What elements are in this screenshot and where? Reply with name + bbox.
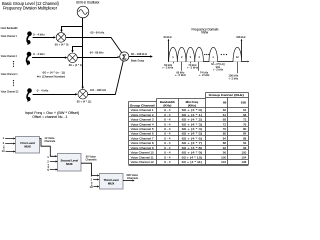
mixer M12	[78, 89, 88, 99]
table row 4: Voice Channel 4	[131, 122, 247, 126]
svg-text:80: 80	[243, 127, 247, 131]
svg-text:60 + (4 * 10): 60 + (4 * 10)	[182, 155, 203, 159]
svg-text:Voice Channel 12: Voice Channel 12	[1, 90, 19, 94]
table row 2: Voice Channel 2	[131, 113, 247, 117]
table row 12: Voice Channel 12	[131, 160, 247, 164]
svg-text:76: 76	[223, 127, 227, 131]
svg-text:0 - 4: 0 - 4	[164, 155, 171, 159]
block Third Level MUX	[100, 174, 124, 190]
input 10 to third level mux	[90, 185, 100, 189]
svg-text:60 - 108 kHz: 60 - 108 kHz	[131, 52, 148, 56]
svg-text:(KHz): (KHz)	[188, 103, 196, 107]
svg-text:Voice Channel 3: Voice Channel 3	[131, 118, 154, 122]
table row 11: Voice Channel 11	[131, 155, 247, 159]
channel hump n	[209, 47, 218, 61]
svg-text:72: 72	[243, 118, 247, 122]
svg-text:0 - 4: 0 - 4	[164, 132, 171, 136]
ellipsis dots first level inputs	[3, 146, 4, 150]
svg-text:0 - 4 kHz: 0 - 4 kHz	[33, 52, 45, 56]
svg-text:60 - 64 kHz: 60 - 64 kHz	[90, 31, 104, 35]
svg-text:12: 12	[2, 149, 6, 153]
svg-text:84: 84	[223, 136, 227, 140]
input 1 to first level mux	[3, 136, 16, 140]
svg-text:Voice Channel n: Voice Channel n	[1, 72, 18, 76]
channel hump 1	[169, 47, 178, 61]
svg-text:68: 68	[243, 113, 247, 117]
leader hump 12	[237, 62, 239, 74]
wire oscillator vertical bus	[82, 18, 84, 87]
ellipsis dots third level inputs	[91, 182, 92, 186]
svg-text:60 + (4 * 4): 60 + (4 * 4)	[182, 127, 203, 131]
svg-text:108 kHz: 108 kHz	[236, 35, 246, 39]
svg-text:96: 96	[243, 146, 247, 150]
svg-text:68: 68	[223, 118, 227, 122]
svg-text:(KHz): (KHz)	[163, 103, 171, 107]
svg-text:10: 10	[90, 185, 94, 189]
mixer M2	[68, 53, 78, 63]
ellipsis dots between hump n and hump 12	[221, 54, 227, 55]
svg-text:Channels: Channels	[127, 176, 139, 180]
svg-text:0 - 4: 0 - 4	[164, 122, 171, 126]
channel hump 2	[177, 47, 186, 61]
input 5 to second level mux	[47, 168, 58, 172]
axis vertical 60 kHz	[168, 39, 170, 62]
ellipsis dots channels 3..n-1	[13, 61, 14, 67]
block Second Level MUX	[58, 154, 82, 172]
svg-text:0 - 4: 0 - 4	[164, 151, 171, 155]
svg-text:76: 76	[243, 122, 247, 126]
svg-text:Frequency Division Multiplexer: Frequency Division Multiplexer	[3, 6, 58, 11]
wire first level mux to second level mux	[40, 139, 58, 158]
svg-text:64 - 68 kHz: 64 - 68 kHz	[90, 50, 104, 54]
svg-text:60: 60	[223, 108, 227, 112]
wire summer output arrow	[129, 55, 153, 57]
svg-text:60 + (4 * 6): 60 + (4 * 6)	[182, 136, 203, 140]
svg-text:+- 2 kHz: +- 2 kHz	[199, 73, 211, 77]
svg-text:Basic Group: Basic Group	[131, 58, 145, 62]
block First Level MUX	[16, 137, 40, 154]
wire second level mux to third level mux	[81, 163, 99, 176]
table row 5: Voice Channel 5	[131, 127, 247, 131]
svg-text:Channels: Channels	[44, 139, 56, 143]
svg-text:+- 2 kHz: +- 2 kHz	[228, 76, 239, 80]
svg-text:100: 100	[221, 155, 226, 159]
svg-text:Group Carrier (KHz): Group Carrier (KHz)	[209, 93, 244, 97]
svg-text:96: 96	[223, 151, 227, 155]
mixer M1	[56, 33, 66, 43]
svg-text:108: 108	[241, 160, 246, 164]
svg-text:0 - 4: 0 - 4	[164, 141, 171, 145]
wire third level mux output	[123, 180, 135, 182]
leader hump 2	[181, 62, 183, 71]
svg-text:60 + (4 * 9): 60 + (4 * 9)	[182, 151, 203, 155]
handset icon channel 1	[26, 31, 31, 44]
svg-text:0 - 4: 0 - 4	[164, 160, 171, 164]
svg-text:Voice Channel 1: Voice Channel 1	[131, 108, 154, 112]
svg-text:60 + (4 * 0): 60 + (4 * 0)	[55, 42, 69, 46]
table row 6: Voice Channel 6	[131, 132, 247, 136]
handset icon channel 12	[26, 88, 31, 101]
table row 7: Voice Channel 7	[131, 136, 247, 140]
input 12 to first level mux	[2, 149, 16, 153]
svg-text:60 KHz Oscillator: 60 KHz Oscillator	[76, 1, 100, 5]
leader hump 3	[190, 62, 192, 64]
svg-text:72: 72	[223, 122, 227, 126]
svg-text:0 - 4: 0 - 4	[164, 118, 171, 122]
svg-text:MUX: MUX	[24, 145, 30, 149]
svg-text:+- 2 kHz: +- 2 kHz	[162, 66, 174, 70]
wire branch to mixer M1	[60, 27, 82, 33]
svg-text:+- 2 kHz: +- 2 kHz	[213, 67, 224, 71]
ellipsis dots between hump 4 and hump n	[204, 54, 209, 55]
oscillator OSC1	[77, 6, 89, 18]
axis horizontal frequency	[169, 61, 250, 63]
arrow into mixer M12	[82, 87, 84, 90]
table row 1: Voice Channel 1	[131, 108, 247, 112]
svg-text:0 - 4 kHz: 0 - 4 kHz	[37, 89, 49, 93]
svg-text:60 + (4 * 3): 60 + (4 * 3)	[182, 122, 203, 126]
svg-text:104: 104	[221, 160, 226, 164]
svg-text:Σ: Σ	[122, 52, 127, 61]
wire mixer M2 output to summer	[78, 56, 120, 58]
svg-text:0 - 4: 0 - 4	[164, 108, 171, 112]
svg-text:104: 104	[241, 155, 246, 159]
svg-text:88: 88	[223, 141, 227, 145]
svg-text:60 + (4 * 8): 60 + (4 * 8)	[182, 146, 203, 150]
channel hump 12	[233, 47, 242, 61]
svg-text:0 - 4: 0 - 4	[164, 113, 171, 117]
ellipsis dots second level inputs	[48, 164, 49, 168]
svg-text:60 + (4 * 11): 60 + (4 * 11)	[77, 100, 92, 104]
svg-text:Voice Channel 7: Voice Channel 7	[131, 136, 154, 140]
svg-text:Voice Channel 10: Voice Channel 10	[131, 151, 154, 155]
channel hump 3	[186, 47, 195, 61]
svg-text:88: 88	[243, 136, 247, 140]
leader hump n	[213, 62, 215, 63]
svg-text:0 - 4: 0 - 4	[164, 136, 171, 140]
svg-text:92: 92	[243, 141, 247, 145]
svg-text:60: 60	[223, 101, 227, 105]
svg-text:Voice Channel 8: Voice Channel 8	[131, 141, 154, 145]
svg-text:60 + (4 * 2): 60 + (4 * 2)	[182, 118, 203, 122]
svg-text:Group Channel: Group Channel	[130, 103, 155, 107]
svg-text:Voice Channel 5: Voice Channel 5	[131, 127, 154, 131]
svg-text:60 + (4 * 11): 60 + (4 * 11)	[182, 160, 203, 164]
svg-text:92: 92	[223, 146, 227, 150]
wire channel 12 to mixer M12	[33, 93, 78, 95]
axis vertical 108 kHz	[241, 39, 243, 62]
svg-text:Voice Channel 4: Voice Channel 4	[131, 122, 154, 126]
svg-text:64: 64	[223, 113, 227, 117]
input 2 to third level mux	[91, 177, 100, 181]
svg-text:Voice Channel 2: Voice Channel 2	[131, 113, 154, 117]
svg-text:Voice Channel 9: Voice Channel 9	[131, 146, 154, 150]
svg-text:Voice Channel 12: Voice Channel 12	[131, 160, 154, 164]
table row 8: Voice Channel 8	[131, 141, 247, 145]
leader hump 4	[198, 62, 200, 71]
svg-text:60 + (4 * 1): 60 + (4 * 1)	[182, 113, 203, 117]
summer U1 (sigma adder)	[120, 52, 129, 62]
table row 9: Voice Channel 9	[131, 146, 247, 150]
leader hump 1	[173, 62, 175, 64]
svg-text:Voice Channel 2: Voice Channel 2	[1, 54, 17, 58]
svg-text:+- 2 kHz: +- 2 kHz	[187, 66, 199, 70]
table row 10: Voice Channel 10	[131, 151, 247, 155]
svg-text:84: 84	[243, 132, 247, 136]
svg-text:# n (Channel Number): # n (Channel Number)	[37, 74, 65, 78]
table row 3: Voice Channel 3	[131, 118, 247, 122]
input 2 to second level mux	[47, 160, 58, 164]
ellipsis dots channels n..11	[13, 80, 14, 86]
svg-text:104 - 108 kHz: 104 - 108 kHz	[90, 88, 107, 92]
svg-text:Channels: Channels	[86, 158, 98, 162]
svg-text:100: 100	[241, 151, 246, 155]
svg-text:MUX: MUX	[66, 162, 72, 166]
svg-text:60 + (4 * 7): 60 + (4 * 7)	[182, 141, 203, 145]
svg-text:0 - 4: 0 - 4	[164, 146, 171, 150]
wire mixer M12 output to summer	[88, 61, 123, 95]
channel hump 4	[195, 47, 204, 61]
wire channel 1 to mixer M1	[33, 36, 56, 38]
wire branch to mixer M2	[71, 47, 82, 53]
svg-text:Offset = channel No. -1: Offset = channel No. -1	[32, 115, 67, 119]
svg-text:60 + (4 * 1): 60 + (4 * 1)	[69, 63, 83, 67]
wire channel 2 to mixer M2	[32, 56, 67, 58]
input 2 to first level mux	[3, 141, 16, 145]
svg-text:Voice Channel 6: Voice Channel 6	[131, 132, 154, 136]
svg-text:+- 2 kHz: +- 2 kHz	[175, 73, 187, 77]
svg-text:60 + (4 * 5): 60 + (4 * 5)	[182, 132, 203, 136]
svg-text:Voice Channel 1: Voice Channel 1	[1, 34, 17, 38]
svg-text:60 kHz: 60 kHz	[164, 35, 173, 39]
svg-text:64: 64	[243, 108, 247, 112]
svg-text:0 - 4: 0 - 4	[164, 127, 171, 131]
svg-text:108: 108	[241, 101, 246, 105]
wire mixer M1 output to summer	[66, 38, 122, 53]
svg-text:80: 80	[223, 132, 227, 136]
handset icon channel 2	[26, 52, 31, 65]
svg-text:0 - 4 kHz: 0 - 4 kHz	[33, 32, 45, 36]
svg-text:View: View	[201, 31, 209, 35]
svg-text:Voice Channel 11: Voice Channel 11	[131, 155, 154, 159]
svg-text:60 + (4 * 0): 60 + (4 * 0)	[182, 108, 203, 112]
table frequency allocation grid lines	[129, 93, 249, 166]
svg-text:4 kHz Bandwidth: 4 kHz Bandwidth	[0, 26, 18, 30]
svg-text:MUX: MUX	[108, 181, 114, 185]
